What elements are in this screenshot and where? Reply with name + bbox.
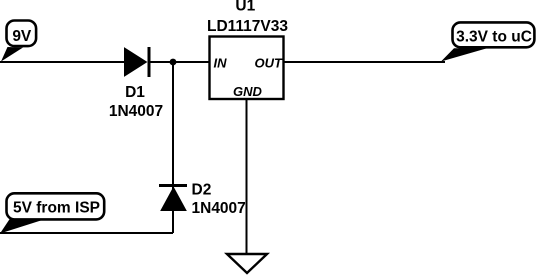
node: D1 cathode / D2 cathode junction bbox=[170, 59, 177, 66]
svg-text:OUT: OUT bbox=[255, 56, 284, 71]
svg-text:5V from ISP: 5V from ISP bbox=[13, 200, 100, 217]
svg-text:3.3V to uC: 3.3V to uC bbox=[456, 29, 532, 46]
svg-text:LD1117V33: LD1117V33 bbox=[207, 18, 288, 35]
svg-text:D1: D1 bbox=[125, 84, 145, 101]
wire: U1 OUT to 3.3V flag bbox=[283, 61, 445, 63]
svg-text:D2: D2 bbox=[192, 182, 212, 199]
diode D1 bbox=[125, 47, 150, 77]
node flag 3.3V to uC bbox=[441, 22, 534, 61]
voltage regulator U1 (LD1117V33) body bbox=[210, 37, 284, 100]
node flag 9V bbox=[1, 21, 36, 62]
wire: junction down through D2 bbox=[172, 62, 174, 233]
wire: 5V flag to D2 anode bbox=[0, 232, 173, 234]
wire: U1 GND pin to ground bbox=[246, 99, 248, 254]
diode D2 bbox=[159, 186, 187, 211]
wire: 9V flag to D1 anode bbox=[0, 61, 126, 63]
ground bbox=[227, 254, 267, 273]
svg-text:GND: GND bbox=[233, 84, 263, 99]
svg-text:1N4007: 1N4007 bbox=[109, 103, 163, 120]
node flag 5V from ISP bbox=[0, 193, 104, 233]
svg-text:1N4007: 1N4007 bbox=[192, 200, 246, 217]
svg-text:U1: U1 bbox=[235, 0, 255, 15]
wire: D1 cathode to U1 IN bbox=[148, 61, 210, 63]
svg-text:9V: 9V bbox=[12, 28, 32, 45]
svg-text:IN: IN bbox=[214, 56, 228, 71]
